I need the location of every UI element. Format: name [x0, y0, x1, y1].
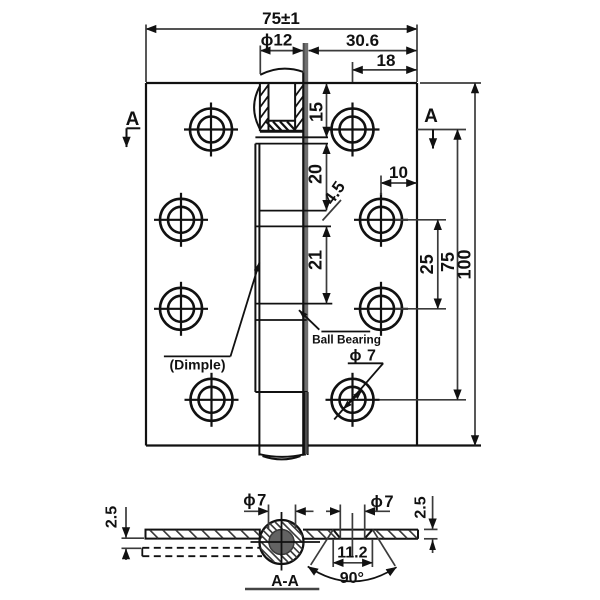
barrel left bulge arc	[254, 86, 260, 130]
dimension 75 hole span	[438, 130, 458, 400]
svg-text:ϕ7: ϕ7	[350, 348, 382, 365]
svg-text:Ball Bearing: Ball Bearing	[312, 333, 381, 347]
top knuckle hatching right wall	[295, 86, 303, 97]
dimension 21	[306, 227, 327, 304]
dimension 25	[417, 220, 438, 309]
screw hole top-left	[184, 103, 238, 157]
pin shaft (gray band)	[303, 43, 309, 392]
plate bottom edge with extension	[146, 444, 481, 446]
plate right edge	[416, 83, 418, 446]
barrel section outer circle	[260, 520, 304, 564]
svg-text:2.5: 2.5	[413, 496, 430, 518]
hole row extension lines right side	[417, 129, 466, 131]
svg-text:90°: 90°	[340, 570, 364, 587]
dimension 20	[306, 144, 327, 210]
bottom knuckle cap arcs	[259, 454, 305, 457]
countersink left face	[333, 530, 340, 539]
label phi7 hole with leader	[334, 348, 383, 420]
ball bearing washer lines	[255, 303, 332, 305]
dimension 15	[307, 84, 327, 137]
svg-text:A-A: A-A	[271, 573, 299, 590]
svg-text:30.6: 30.6	[346, 31, 379, 50]
dimension 30.6	[309, 31, 417, 51]
dimension 90 degree countersink angle	[308, 530, 397, 587]
right leaf section bar with countersunk hole	[303, 530, 418, 539]
barrel top arc	[260, 69, 303, 75]
bottom knuckle edges	[258, 392, 260, 456]
washer 2 (4.5 gap) lines	[259, 210, 326, 212]
screw hole bottom-right	[326, 373, 380, 427]
dimension phi7 pin	[243, 492, 313, 530]
dimension 18	[353, 51, 417, 82]
top knuckle hatching left wall	[260, 85, 268, 96]
countersink right face	[364, 530, 372, 539]
svg-text:ϕ7: ϕ7	[371, 493, 396, 511]
dimension 11.2 countersink	[333, 539, 372, 567]
left leaf section bar	[146, 530, 263, 539]
dimension 10	[381, 163, 417, 195]
screw hole upper-mid-left	[154, 193, 208, 247]
label Ball Bearing with leader	[299, 310, 381, 346]
svg-text:21: 21	[306, 250, 326, 270]
dimension 75+-1 overall width	[146, 9, 417, 82]
svg-text:(Dimple): (Dimple)	[170, 357, 226, 373]
barrel centerlines	[281, 512, 283, 571]
svg-text:25: 25	[417, 254, 437, 274]
hinge pin section (dark circle)	[269, 530, 294, 555]
knuckle 2-4 left edges (continuous)	[254, 144, 256, 392]
dimension 2.5 right	[413, 496, 438, 553]
svg-text:20: 20	[306, 164, 326, 184]
plate top edge	[146, 82, 417, 84]
svg-text:11.2: 11.2	[337, 545, 367, 562]
svg-text:ϕ7: ϕ7	[243, 492, 268, 510]
svg-text:A: A	[126, 109, 140, 130]
dimension 4.5 with leader	[320, 178, 349, 221]
svg-text:ϕ12: ϕ12	[261, 31, 293, 50]
section arrow A right	[424, 106, 438, 149]
svg-text:15: 15	[307, 102, 327, 122]
joint line above bottom knuckle	[255, 391, 307, 393]
svg-text:2.5: 2.5	[104, 506, 121, 528]
plate left edge	[145, 83, 147, 446]
dimension 100 plate height	[455, 83, 476, 446]
barrel ring hatching	[221, 522, 343, 562]
screw hole lower-mid-left	[154, 282, 208, 336]
washer 1 lines	[255, 136, 328, 138]
dimension phi7 countersunk hole	[326, 493, 395, 556]
label A-A	[245, 573, 319, 590]
screw hole top-right	[326, 103, 380, 157]
screw hole upper-mid-right	[354, 193, 408, 247]
dimension 2.5 left	[104, 506, 145, 560]
bearing block in cut-away	[269, 120, 296, 122]
svg-text:18: 18	[377, 51, 396, 70]
dimension phi12 barrel	[260, 31, 303, 75]
screw hole lower-mid-right	[354, 282, 408, 336]
svg-text:75±1: 75±1	[262, 9, 300, 28]
svg-text:A: A	[424, 106, 438, 127]
hidden leaf dashed outline	[142, 548, 262, 556]
label (Dimple) with leader	[164, 263, 260, 373]
svg-text:100: 100	[455, 249, 475, 279]
top knuckle cut-away walls	[259, 83, 261, 131]
section arrow A left	[126, 109, 141, 147]
svg-text:10: 10	[389, 163, 408, 182]
screw hole bottom-left	[185, 373, 239, 427]
